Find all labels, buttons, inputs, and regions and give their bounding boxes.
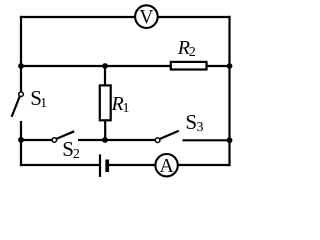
- resistor R2: [171, 62, 207, 70]
- junction dot: left border / lower row: [18, 137, 24, 143]
- wire: right border: [228, 16, 230, 166]
- wire: S3 to right border: [183, 139, 230, 141]
- ammeter A: [155, 154, 177, 176]
- wire: S2 to R1 bottom node and on to S3: [78, 139, 155, 141]
- battery long plate (positive): [99, 154, 101, 177]
- wire: bottom border right of battery: [107, 164, 230, 166]
- wire: top border right of voltmeter: [157, 16, 230, 18]
- junction dot: R1 top: [102, 63, 108, 69]
- wire: lower middle row, left border to S2: [21, 139, 52, 141]
- wire: bottom border left of battery: [20, 164, 100, 166]
- svg-text:V: V: [139, 7, 153, 28]
- junction dot: right border / lower row: [227, 137, 233, 143]
- junction dot: R1 bottom: [102, 137, 108, 143]
- switch S2 pivot circle: [52, 138, 57, 143]
- wire: R2 right lead to right border: [207, 65, 230, 67]
- switch S3 pivot circle: [155, 138, 160, 143]
- wire: left border lower (S1 to bottom corner): [20, 121, 22, 166]
- switch S1 pivot circle: [19, 92, 24, 97]
- battery short plate (negative): [105, 160, 109, 173]
- wire: R1 bottom lead: [104, 120, 106, 140]
- svg-text:A: A: [159, 155, 174, 177]
- wire: left border upper (top corner to S1): [20, 16, 22, 92]
- switch S3 lever: [160, 131, 179, 139]
- wire: top border left of voltmeter: [20, 16, 135, 18]
- wire: middle horizontal (node B row, y=66) left of R2: [21, 65, 170, 67]
- voltmeter V: [135, 5, 158, 28]
- switch S2 lever: [56, 131, 74, 139]
- resistor R1: [100, 85, 111, 120]
- switch S1 lever: [12, 96, 20, 117]
- junction dot: right border / middle row: [227, 63, 233, 69]
- junction dot: left border / middle row: [18, 63, 24, 69]
- wire: R1 top lead: [104, 66, 106, 85]
